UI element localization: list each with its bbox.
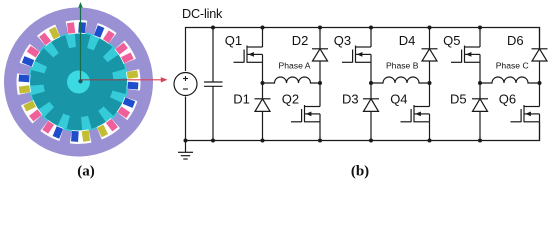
svg-text:Q2: Q2	[282, 91, 299, 106]
wire Q1 source to phase node	[262, 62, 264, 83]
wire D3 anode to bottom rail	[370, 111, 372, 140]
wire D4 anode to phase node	[429, 61, 431, 83]
axis d red line outer segment	[128, 79, 162, 81]
svg-text:D5: D5	[450, 91, 467, 106]
wire Q2 source to bottom rail	[319, 122, 321, 141]
voltage source V DC circle	[174, 73, 197, 96]
node top rail junction x=320	[318, 26, 322, 30]
node phase A left junction	[261, 81, 265, 85]
transistor Q6 MOSFET symbol	[511, 105, 540, 122]
node top rail junction x=429.5	[428, 26, 432, 30]
stator slot at 0 deg	[66, 20, 88, 35]
wire phase node to Q2 drain	[319, 83, 321, 107]
axis q green arrowhead	[78, 2, 83, 8]
capacitor C dc-link	[204, 28, 223, 141]
node bottom rail junction x=213	[211, 139, 215, 143]
wire Q3 drain from top rail	[370, 28, 372, 48]
coil bar left of slot 0	[67, 22, 75, 33]
diode D4 symbol	[422, 49, 438, 61]
rotor tooth at 7 deg	[74, 33, 91, 50]
rotor tooth at 67 deg	[105, 54, 126, 75]
diode D2 symbol	[312, 49, 328, 61]
axis d red arrowhead	[161, 77, 168, 82]
stator slot at 30 deg	[91, 22, 117, 45]
coil bar right of slot 330	[49, 27, 60, 40]
coil bar left of slot 180	[82, 130, 90, 141]
transistor Q3 MOSFET symbol	[342, 46, 371, 63]
svg-text:Q6: Q6	[499, 91, 516, 106]
svg-text:D6: D6	[507, 33, 524, 48]
svg-text:(b): (b)	[351, 163, 369, 179]
node phase A right junction	[318, 81, 322, 85]
wire phase node to Q4 drain	[429, 83, 431, 107]
rotor tooth at 247 deg	[31, 89, 52, 110]
coil bar right of slot 90	[127, 82, 138, 90]
transistor Q5 MOSFET symbol	[451, 46, 480, 63]
svg-text:Q1: Q1	[225, 33, 242, 48]
axis q green vertical line	[80, 6, 82, 82]
diode D3 symbol	[363, 99, 379, 112]
stator slot at 330 deg	[37, 24, 63, 47]
label minus sign in source	[183, 88, 188, 90]
node top rail junction x=213	[211, 26, 215, 30]
coil bar left of slot 300	[22, 56, 34, 66]
wire Q5 drain from top rail	[479, 28, 481, 48]
wire phase node to D5 cathode	[479, 83, 481, 99]
coil bar right of slot 240	[23, 101, 36, 112]
coil bar left of slot 330	[39, 33, 51, 46]
wire bottom DC rail	[186, 97, 540, 141]
coil bar left of slot 270	[19, 85, 30, 93]
node bottom rail junction x=371	[369, 139, 373, 143]
wire phase node to Q6 drain	[539, 83, 541, 107]
node phase C left junction	[478, 81, 482, 85]
rotor body dark teal ring	[42, 46, 114, 118]
coil bar right of slot 60	[121, 52, 134, 63]
stator housing outer purple disc	[1, 5, 155, 159]
stator slot at 240 deg	[20, 98, 43, 124]
coil bar left of slot 30	[94, 25, 104, 37]
ground symbol	[178, 141, 193, 160]
wire D5 anode to bottom rail	[479, 111, 481, 140]
coil bar left of slot 90	[127, 70, 138, 78]
node top rail junction x=371	[369, 26, 373, 30]
wire Q6 source to bottom rail	[539, 122, 541, 141]
coil bar right of slot 120	[117, 106, 130, 118]
diode D6 symbol	[532, 49, 548, 61]
wire Q5 source to phase node	[479, 62, 481, 83]
rotor tooth at 187 deg	[66, 114, 83, 131]
svg-text:(a): (a)	[77, 163, 95, 179]
wire Q4 source to bottom rail	[429, 122, 431, 141]
node bottom rail junction x=429.5	[428, 139, 432, 143]
coil bar right of slot 150	[97, 125, 108, 138]
wire D6 anode to phase node	[539, 61, 541, 83]
coil bar right of slot 210	[42, 121, 54, 134]
rotor tooth at 337 deg	[51, 35, 72, 56]
wire top DC rail	[186, 28, 540, 72]
node motor center dot	[78, 79, 82, 83]
rotor tooth at 37 deg	[91, 38, 113, 60]
rotor tooth at 307 deg	[34, 48, 56, 70]
wire D2 anode to phase node	[319, 61, 321, 83]
node bottom rail junction x=480	[478, 139, 482, 143]
rotor tooth at 217 deg	[44, 104, 66, 126]
svg-text:Q4: Q4	[390, 91, 407, 106]
node phase C right junction	[538, 81, 542, 85]
wire phase node to D3 cathode	[370, 83, 372, 99]
node top rail junction x=262.5	[261, 26, 265, 30]
transistor Q4 MOSFET symbol	[401, 105, 430, 122]
svg-text:D1: D1	[233, 91, 250, 106]
node bottom rail junction x=185.5	[184, 139, 188, 143]
stator slot at 90 deg	[126, 69, 141, 91]
transistor Q1 MOSFET symbol	[234, 46, 263, 63]
svg-text:Q5: Q5	[443, 33, 460, 48]
transistor Q2 MOSFET symbol	[291, 105, 320, 122]
wire D1 anode to bottom rail	[262, 111, 264, 140]
coil bar left of slot 210	[53, 126, 63, 138]
svg-text:Phase C: Phase C	[496, 61, 529, 71]
stator bore light cyan disc	[27, 30, 130, 133]
node bottom rail junction x=262.5	[261, 139, 265, 143]
wire top rail to D2 cathode	[319, 28, 321, 49]
inductor winding Phase A	[263, 77, 321, 83]
svg-text:D4: D4	[399, 33, 416, 48]
stator slot at 60 deg	[113, 40, 136, 66]
coil bar right of slot 0	[78, 22, 86, 33]
rotor shaft light cyan circle	[67, 70, 91, 94]
coil bar left of slot 240	[29, 109, 42, 121]
diode D5 symbol	[472, 99, 488, 112]
axis d red horizontal line	[81, 79, 128, 81]
coil bar left of slot 150	[106, 119, 118, 132]
rotor tooth at 277 deg	[30, 70, 47, 87]
coil bar right of slot 180	[71, 131, 79, 142]
rotor tooth at 127 deg	[101, 94, 123, 116]
node bottom rail junction x=320	[318, 139, 322, 143]
coil bar left of slot 60	[115, 43, 128, 55]
node phase B left junction	[369, 81, 373, 85]
wire Q3 source to phase node	[370, 62, 372, 83]
stator slot at 150 deg	[95, 117, 121, 140]
stator slot at 270 deg	[16, 73, 31, 95]
stator slot at 210 deg	[40, 119, 66, 142]
svg-text:D2: D2	[292, 33, 309, 48]
inductor winding Phase C	[480, 77, 540, 83]
svg-text:Phase A: Phase A	[278, 61, 310, 71]
coil bar right of slot 300	[27, 46, 40, 58]
svg-text:Q3: Q3	[334, 33, 351, 48]
wire phase node to D1 cathode	[262, 83, 264, 99]
stator slot at 180 deg	[69, 129, 91, 144]
rotor tooth at 157 deg	[85, 108, 106, 129]
label plus sign in source	[183, 76, 188, 81]
rotor tooth at 97 deg	[110, 77, 127, 94]
wire top rail to D4 cathode	[429, 28, 431, 49]
inductor winding Phase B	[371, 77, 430, 83]
svg-text:DC-link: DC-link	[182, 7, 223, 21]
coil bar left of slot 120	[123, 97, 135, 107]
wire top rail to D6 cathode	[539, 28, 541, 49]
svg-text:D3: D3	[342, 91, 359, 106]
coil bar right of slot 270	[19, 75, 30, 83]
stator slot at 120 deg	[116, 95, 139, 121]
node phase B right junction	[428, 81, 432, 85]
wire Q1 drain from top rail	[262, 28, 264, 48]
svg-text:Phase B: Phase B	[386, 61, 419, 71]
diode D1 symbol	[255, 99, 271, 112]
stator slot at 300 deg	[19, 43, 42, 69]
node top rail junction x=480	[478, 26, 482, 30]
coil bar right of slot 30	[103, 30, 115, 43]
